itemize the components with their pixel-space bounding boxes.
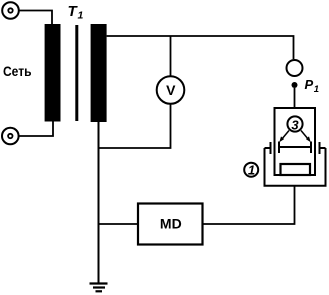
ground	[90, 284, 108, 292]
wire secondary top to P1 branch	[107, 36, 294, 59]
wire from X1 to primary top	[19, 11, 52, 25]
wire vessel bottom to MD	[203, 186, 295, 224]
wire secondary bottom down to ground	[98, 122, 100, 284]
vessel (bath) label 1 walls	[265, 142, 326, 186]
svg-text:P: P	[305, 77, 314, 92]
terminal X2 (mains input, bottom)	[2, 128, 19, 145]
transformer T1 core	[75, 25, 78, 121]
electrode assembly label 3 (circled)	[287, 116, 302, 132]
vessel label 1 (circled)	[244, 163, 258, 178]
svg-text:1: 1	[314, 84, 319, 95]
svg-text:V: V	[166, 82, 176, 98]
svg-text:1: 1	[248, 163, 255, 178]
chamber (inner enclosure)	[275, 108, 316, 175]
node P1 dot	[292, 82, 298, 88]
MD unit box	[138, 204, 203, 245]
terminal P1 circle	[287, 60, 303, 76]
electrode bar with end ticks	[278, 142, 312, 154]
svg-text:3: 3	[291, 118, 299, 133]
wire voltmeter top branch	[170, 36, 172, 76]
leader arrow right from 3	[301, 131, 311, 143]
svg-text:MD: MD	[160, 216, 182, 232]
wire from X2 to primary bottom	[19, 121, 53, 136]
svg-text:1: 1	[78, 10, 84, 22]
leader arrow left from 3	[279, 131, 289, 143]
wire MD to main vertical	[99, 223, 139, 225]
wire P1 to chamber top	[294, 88, 296, 109]
voltmeter V	[157, 76, 185, 104]
transformer T1 secondary winding	[91, 24, 107, 122]
wire voltmeter bottom branch	[99, 104, 171, 148]
terminal X1 (mains input, top)	[2, 2, 19, 19]
transformer T1 primary winding	[45, 24, 61, 122]
svg-text:Сеть: Сеть	[3, 63, 32, 79]
specimen (sample under test)	[281, 164, 311, 175]
